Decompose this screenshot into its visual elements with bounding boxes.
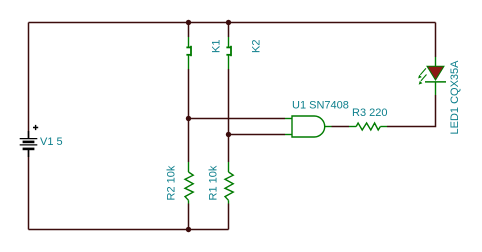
- svg-text:R3 220: R3 220: [352, 107, 387, 119]
- wire bottom rail: [29, 229, 229, 231]
- wire K1 branch vertical: [188, 23, 190, 230]
- wire K2 branch vertical: [228, 23, 230, 230]
- node junction K2/input B: [226, 132, 231, 137]
- svg-text:U1 SN7408: U1 SN7408: [292, 100, 349, 112]
- battery V1: [20, 125, 39, 157]
- wire left rail: [28, 23, 30, 230]
- svg-text:K1: K1: [211, 40, 223, 53]
- wire top rail: [29, 22, 436, 24]
- wire gate output to R3: [332, 126, 350, 128]
- svg-text:R1 10k: R1 10k: [208, 165, 220, 200]
- svg-text:LED1 CQX35A: LED1 CQX35A: [449, 60, 461, 135]
- resistor R2: [185, 162, 193, 204]
- wire gate input B: [229, 134, 286, 136]
- resistor R1: [225, 162, 233, 204]
- op-amp U1 AND gate: [285, 116, 332, 137]
- wire right rail (LED branch): [387, 23, 436, 127]
- node junction top K2: [226, 20, 231, 25]
- switch K1: [186, 37, 191, 69]
- svg-text:R2 10k: R2 10k: [166, 165, 178, 200]
- svg-text:V1 5: V1 5: [40, 136, 63, 148]
- wire gate input A: [189, 118, 286, 120]
- node junction top K1: [186, 20, 191, 25]
- LED LED1: [418, 57, 446, 95]
- svg-text:K2: K2: [251, 40, 263, 53]
- resistor R3: [349, 123, 387, 130]
- switch K2: [226, 37, 231, 69]
- node junction bottom R2: [186, 227, 191, 232]
- node junction K1/input A: [186, 116, 191, 121]
